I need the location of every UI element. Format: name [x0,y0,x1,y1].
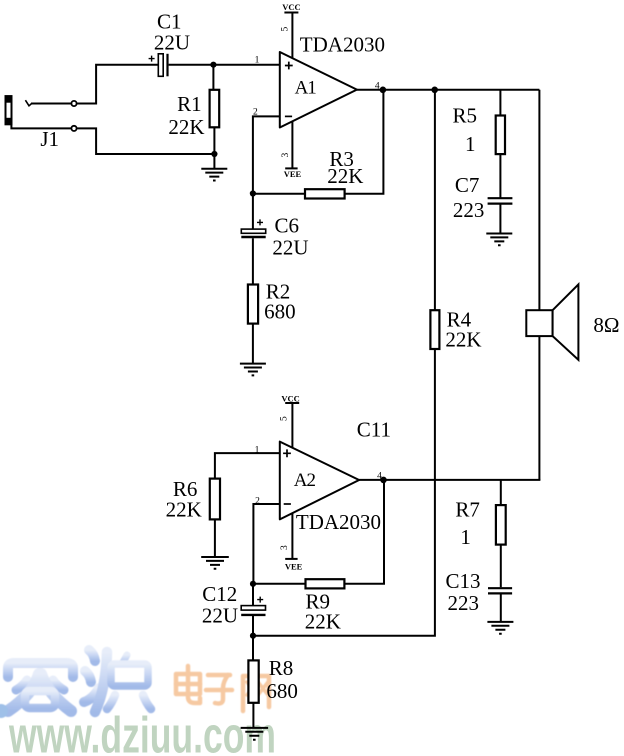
svg-text:VCC: VCC [282,2,300,12]
svg-text:5: 5 [281,27,291,32]
svg-text:C13: C13 [445,569,480,593]
svg-text:1: 1 [465,132,476,156]
svg-text:C11: C11 [357,418,391,442]
svg-text:3: 3 [281,153,291,158]
svg-text:680: 680 [264,300,296,324]
svg-text:www.dziuu.com: www.dziuu.com [8,707,276,756]
svg-text:223: 223 [453,198,485,222]
svg-text:22K: 22K [166,498,202,522]
svg-text:22U: 22U [154,30,190,54]
svg-text:680: 680 [266,679,298,703]
svg-text:C7: C7 [455,173,480,197]
svg-text:8Ω: 8Ω [593,313,619,337]
svg-text:22K: 22K [445,328,481,352]
svg-text:C12: C12 [202,582,237,606]
svg-text:2: 2 [253,108,258,118]
svg-text:R5: R5 [453,104,478,128]
svg-text:R1: R1 [177,92,202,116]
svg-text:2: 2 [255,496,260,506]
svg-text:22U: 22U [272,235,308,259]
svg-text:22K: 22K [327,164,363,188]
svg-text:1: 1 [255,56,260,66]
svg-text:R7: R7 [455,497,480,521]
svg-text:VEE: VEE [284,169,302,179]
svg-text:4: 4 [375,81,380,91]
svg-text:22K: 22K [305,609,341,633]
svg-text:J1: J1 [40,127,59,151]
svg-text:5: 5 [280,416,290,421]
svg-text:4: 4 [377,471,382,481]
svg-text:1: 1 [255,445,260,455]
svg-text:22K: 22K [168,115,204,139]
svg-text:VCC: VCC [281,393,299,403]
svg-text:TDA2030: TDA2030 [300,33,385,57]
svg-text:VEE: VEE [285,561,303,571]
svg-text:TDA2030: TDA2030 [296,510,381,534]
svg-text:C6: C6 [275,214,300,238]
svg-text:A2: A2 [294,470,316,491]
svg-text:22U: 22U [202,603,238,627]
svg-text:3: 3 [280,545,290,550]
svg-text:1: 1 [460,525,471,549]
svg-text:223: 223 [447,591,479,615]
svg-text:A1: A1 [295,78,317,99]
svg-text:R8: R8 [269,656,294,680]
